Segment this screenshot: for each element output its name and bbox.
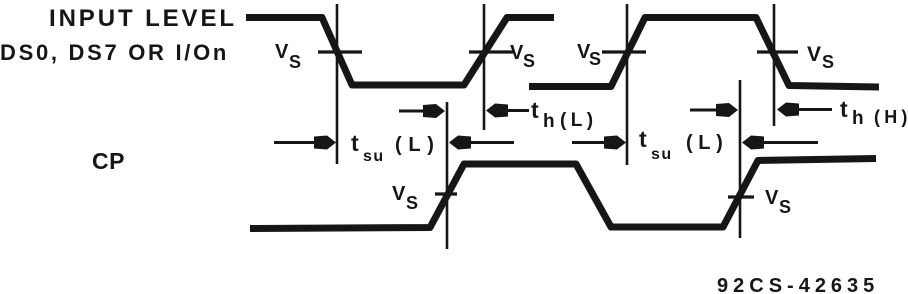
- svg-text:92CS-42635: 92CS-42635: [717, 275, 879, 294]
- svg-text:su: su: [651, 146, 673, 163]
- svg-text:V: V: [765, 187, 779, 209]
- svg-text:DS0, DS7 OR I/On: DS0, DS7 OR I/On: [0, 40, 229, 65]
- svg-text:S: S: [822, 52, 834, 72]
- svg-text:V: V: [807, 43, 821, 66]
- svg-text:t: t: [639, 126, 647, 152]
- svg-text:S: S: [779, 197, 791, 217]
- svg-text:S: S: [589, 49, 601, 69]
- svg-text:h: h: [852, 108, 864, 129]
- svg-text:V: V: [392, 183, 406, 205]
- svg-text:S: S: [406, 193, 418, 213]
- svg-text:h: h: [543, 111, 555, 132]
- svg-text:(L): (L): [560, 110, 597, 131]
- svg-text:t: t: [531, 97, 539, 123]
- svg-text:(L): (L): [395, 134, 441, 156]
- svg-text:S: S: [289, 52, 301, 72]
- svg-text:t: t: [351, 130, 359, 156]
- svg-text:t: t: [840, 96, 848, 122]
- svg-text:CP: CP: [92, 148, 125, 174]
- svg-text:V: V: [510, 42, 524, 64]
- svg-text:(H): (H): [874, 107, 908, 127]
- svg-text:su: su: [363, 148, 385, 165]
- svg-text:(L): (L): [686, 132, 728, 154]
- svg-text:V: V: [275, 41, 289, 63]
- svg-text:S: S: [523, 51, 535, 71]
- svg-text:INPUT LEVEL: INPUT LEVEL: [49, 5, 237, 32]
